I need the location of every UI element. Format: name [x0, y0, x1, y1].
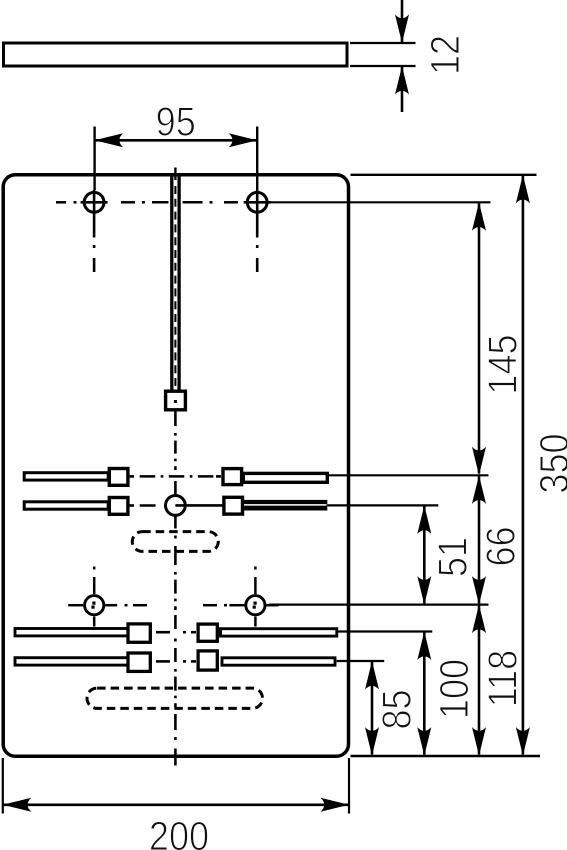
row2 right terminal square	[224, 497, 243, 514]
centerline top holes dash a	[56, 201, 66, 204]
top right mounting hole	[247, 192, 267, 212]
row2 centerline dash	[140, 504, 156, 507]
row4 left terminal square	[128, 653, 150, 671]
row3 right terminal square	[198, 624, 217, 641]
arrow down 350 bottom	[516, 727, 530, 756]
row4 centerline dash	[156, 660, 170, 663]
slot centerline tick at plate edge	[174, 168, 176, 181]
slot end square	[166, 391, 186, 410]
crosshair h left arm lower left hole	[68, 604, 83, 607]
row4 stub	[191, 660, 196, 663]
svg-text:145: 145	[480, 334, 526, 394]
center dot below top left hole	[93, 245, 96, 248]
crosshair h left arm lower right hole	[229, 604, 244, 607]
arrow down 66 bottom	[472, 576, 486, 605]
arrow up 85 top	[365, 661, 379, 690]
svg-text:95: 95	[156, 99, 196, 145]
svg-text:118: 118	[480, 650, 526, 708]
arrow down 118 bottom	[472, 727, 486, 756]
row1 right terminal square	[223, 469, 242, 485]
extension line top holes to 145 dim	[269, 201, 491, 203]
extension line lower holes to dims	[269, 603, 489, 605]
arrow down 85 bottom	[365, 727, 379, 756]
main plate outline	[3, 175, 348, 756]
dimension line 85	[371, 662, 374, 755]
row2 right bar white slit	[244, 504, 327, 506]
row1 left terminal square	[109, 469, 128, 486]
extension line top of side view	[350, 42, 416, 44]
row4 right terminal bar	[222, 658, 335, 665]
dimension line 145	[478, 203, 481, 473]
extension line right top hole up	[256, 127, 258, 191]
lower holes centerline dash mid	[133, 604, 147, 607]
crosshair h top left hole	[81, 201, 108, 204]
arrow up to side view bottom edge	[395, 66, 409, 95]
center dot below top right hole	[256, 245, 259, 248]
row3 left terminal bar	[15, 629, 128, 636]
centerline top holes dot b	[142, 201, 145, 204]
extension line left top hole up	[93, 127, 95, 191]
row1 centerline dash-dot	[140, 475, 216, 478]
svg-text:100: 100	[432, 659, 478, 719]
svg-text:200: 200	[149, 814, 209, 850]
center mark dots lower right hole	[254, 602, 257, 605]
centerline top holes dot a	[74, 201, 77, 204]
crosshair h right arm lower left hole	[105, 604, 117, 607]
row1 left terminal bar	[24, 473, 108, 480]
vertical centerline below circle	[174, 516, 177, 529]
center dash below top right hole	[256, 258, 259, 272]
centerline top holes dash c	[152, 201, 169, 204]
row2 right terminal bar filled	[243, 500, 327, 511]
vertical centerline seg2	[174, 572, 177, 610]
row4 right terminal square	[198, 651, 217, 670]
svg-text:350: 350	[532, 433, 567, 493]
dimension line 51	[423, 506, 426, 603]
row4 left terminal bar	[15, 658, 128, 665]
row3 right terminal bar	[221, 629, 337, 636]
centerline dot above bottom edge	[174, 737, 177, 740]
arrow up 118 top	[472, 605, 486, 634]
crosshair v top right hole	[256, 190, 259, 238]
arrow up 350 top	[516, 175, 530, 204]
slot left edge	[170, 176, 173, 391]
center mark dots lower left hole	[92, 602, 95, 605]
centerline top holes dot d	[210, 201, 213, 204]
row3 left terminal square	[128, 624, 150, 642]
row2 extension line to 51 dim	[327, 504, 438, 506]
row4 extension line to 85 dim	[337, 660, 385, 662]
crosshair v bottom arm lower right hole	[254, 617, 257, 627]
arrow down 51 bottom	[417, 576, 431, 605]
centerline top holes dash b	[121, 201, 135, 204]
dimension line 95	[96, 139, 257, 142]
arrow up 145 top	[472, 202, 486, 231]
center dot above lower left hole	[93, 567, 96, 570]
arrow right 200	[321, 798, 350, 812]
arrow up 100 top	[417, 632, 431, 661]
lower holes centerline dot	[125, 604, 128, 607]
lower right hole	[246, 596, 265, 615]
vertical centerline above circle	[174, 481, 177, 496]
vertical centerline seg3	[174, 669, 177, 707]
centerline dash rows34 upper	[174, 615, 177, 629]
row4 centerline dot	[183, 660, 186, 663]
arrow left 200	[3, 798, 32, 812]
lower holes centerline dot2	[224, 604, 227, 607]
crosshair h right arm lower right hole	[266, 604, 278, 607]
centerline top holes dash d	[183, 201, 203, 204]
extension line bottom of side view	[350, 65, 416, 67]
extension line plate bottom to dims	[351, 755, 541, 757]
svg-text:66: 66	[478, 526, 524, 566]
centerline below slot square solid	[174, 412, 177, 427]
svg-text:85: 85	[374, 689, 420, 729]
side view plate outline	[4, 43, 348, 66]
arrow left 95	[95, 133, 124, 147]
center dash below top left hole	[93, 258, 96, 272]
lower holes centerline dash mid2	[203, 604, 217, 607]
crosshair v top left hole	[93, 190, 96, 238]
dimension line 12 upper	[401, 0, 404, 42]
extension line plate top to 350 dim	[351, 174, 537, 176]
centerline dash rows34 lower	[174, 648, 177, 662]
vertical centerline seg1	[174, 433, 177, 470]
centerline dash across bottom edge	[174, 749, 177, 766]
arrow down to side view top edge	[395, 15, 409, 44]
slot square center dot	[174, 400, 177, 403]
row3 stub	[191, 631, 196, 634]
dimension line 118	[478, 606, 481, 755]
slot hidden center dashed line	[174, 186, 176, 392]
extension line plate left down	[2, 758, 4, 814]
dashed slot cutout 2	[87, 688, 263, 708]
dashed slot cutout 1	[132, 532, 218, 552]
crosshair v top arm lower left hole	[93, 577, 96, 594]
dimension line 12 lower	[401, 67, 404, 112]
row2 stub right of left square	[129, 504, 134, 507]
row2 left terminal bar	[24, 502, 108, 509]
slot right edge	[177, 176, 180, 391]
center dot above lower right hole	[254, 567, 257, 570]
top left mounting hole	[84, 192, 104, 212]
arrow up 51 top	[417, 505, 431, 534]
row3 centerline dot	[183, 631, 186, 634]
svg-text:12: 12	[423, 35, 469, 75]
crosshair v top arm lower right hole	[254, 577, 257, 594]
centerline top holes dash e	[224, 201, 238, 204]
row1 stub right of left square	[129, 475, 134, 478]
dimension line 350	[522, 176, 525, 755]
row2 line circle to right square	[175, 504, 223, 507]
crosshair h top right hole	[244, 201, 271, 204]
row1 extension line to 145/66 dim	[328, 474, 489, 476]
centerline dot rows34	[174, 639, 177, 642]
crosshair v bottom arm lower left hole	[93, 617, 96, 627]
arrow down 145 bottom	[472, 447, 486, 476]
centerline dash below stadium1	[174, 546, 177, 565]
dimension line 100	[423, 633, 426, 755]
dimension line 200	[4, 803, 348, 806]
svg-text:51: 51	[430, 537, 476, 577]
row2 left terminal square	[109, 498, 128, 515]
extension line plate right down	[348, 758, 350, 814]
dimension line 66	[478, 476, 481, 603]
row1 right terminal bar	[243, 473, 327, 482]
row1 stub left of right square	[216, 475, 221, 478]
arrow up 66 top	[472, 475, 486, 504]
arrow right 95	[229, 133, 258, 147]
lower left hole	[85, 596, 104, 615]
row3 centerline dash	[156, 631, 170, 634]
arrow down 100 bottom	[417, 727, 431, 756]
row3 extension line to 100 dim	[337, 630, 433, 632]
row2 center circle	[166, 496, 186, 516]
centerline dot in stadium1	[174, 536, 177, 539]
centerline dash below stadium2	[174, 714, 177, 730]
